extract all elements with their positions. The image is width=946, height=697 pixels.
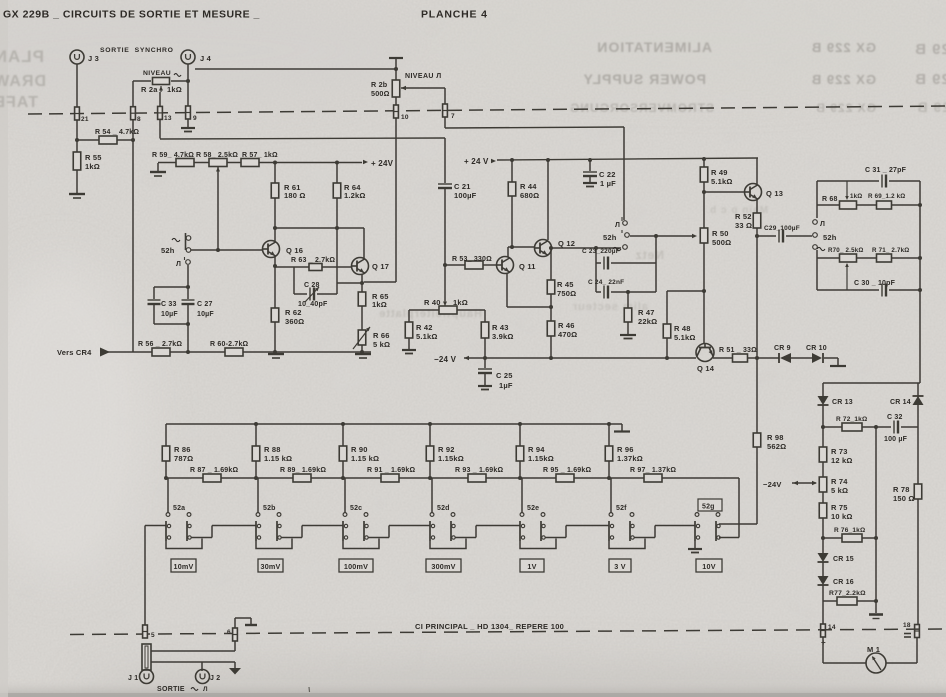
svg-text:R 63 _ 2.7kΩ: R 63 _ 2.7kΩ [291,257,335,264]
svg-text:R 68: R 68 [822,196,838,203]
wire R78 to pad 18 [917,499,919,624]
range label box 100mV [339,559,373,572]
junction series row col 2 [254,476,258,480]
svg-text:R 45: R 45 [557,280,574,289]
wire series row to switch contact col 3 [344,478,346,513]
wire R2b bottom to pad 10 [395,97,397,105]
wire coax shield row lower [151,661,235,663]
svg-text:52d: 52d [437,505,450,512]
potentiometer R40 [439,306,457,314]
svg-text:C 21: C 21 [454,182,471,191]
resistor R42 [408,310,410,322]
range label box 3 V [609,559,631,572]
wire R2a wiper to pad 13 [159,92,161,107]
svg-text:30mV: 30mV [261,562,281,571]
svg-text:C 23_220µF: C 23_220µF [582,248,620,255]
svg-text:1V: 1V [527,562,536,571]
ground below C22 [583,182,597,184]
wire pad6 down to upper row [234,641,236,651]
wire series row to switch contact col 4 [431,478,433,513]
svg-text:12 kΩ: 12 kΩ [831,456,853,465]
potentiometer R70 row with wiper to C30 row [817,257,920,259]
+24V label left rail [363,160,368,164]
wire CR10 to stub [824,357,838,359]
svg-text:470Ω: 470Ω [558,330,577,339]
svg-text:C 32: C 32 [887,414,903,421]
junction series row col 6 [607,476,611,480]
capacitor C30 row [817,289,920,291]
svg-text:3 V: 3 V [614,562,625,571]
svg-text:52g: 52g [702,504,715,511]
svg-text:PLANCHE 4: PLANCHE 4 [421,9,488,21]
svg-text:100µF: 100µF [454,191,477,200]
wire pad14 to meter M1 [822,637,824,663]
svg-text:R 90: R 90 [351,445,368,454]
svg-text:CR 15: CR 15 [833,556,854,563]
capacitor C31 row [817,180,920,182]
svg-text:R 62: R 62 [285,308,302,317]
svg-text:1kΩ: 1kΩ [372,300,387,309]
junction R64 on left rail [335,161,339,165]
resistor R61 [274,162,276,183]
wire series row to switch contact col 6 [610,478,612,513]
wire 52a to 52b [191,537,212,539]
wire R45 to R46 [550,294,552,321]
svg-text:SORTIE: SORTIE [157,686,185,693]
svg-text:−24V: −24V [763,480,782,489]
wire left side of measure block [816,181,818,218]
svg-text:22kΩ: 22kΩ [638,317,657,326]
svg-text:R 88: R 88 [264,445,281,454]
series resistor R 87 [203,474,221,482]
svg-text:CR 9: CR 9 [774,345,791,352]
svg-text:R 76_1kΩ: R 76_1kΩ [834,527,865,534]
svg-text:CR 10: CR 10 [806,345,827,352]
svg-text:R 96: R 96 [617,445,634,454]
wire C21 to R53 node [444,188,446,265]
resistor R75 [822,492,824,503]
stray mark [308,687,311,692]
svg-text:52f: 52f [616,505,627,512]
wire R2a right to J4 column [171,80,188,82]
wire meter to pad 18 [886,662,917,664]
junction series row col 5 [518,476,522,480]
resistor R52 [753,213,761,228]
junction R61 on left rail [273,161,277,165]
svg-text:R 91 _ 1.69kΩ: R 91 _ 1.69kΩ [367,467,415,474]
svg-text:C 30 _ 10pF: C 30 _ 10pF [854,280,896,287]
svg-text:J 2: J 2 [210,675,220,682]
wire coax to pad6 column upper [151,650,235,652]
svg-text:R 78: R 78 [893,485,910,494]
selector switch 52h left [185,233,187,250]
resistor R60 [225,348,243,356]
wire R43 to -24V rail [484,338,486,358]
wire node down to R40 wiper [444,265,446,301]
range label box 1V [520,559,544,572]
svg-text:500Ω: 500Ω [712,238,731,247]
diode CR10 [812,353,823,363]
svg-text:10mV: 10mV [174,562,194,571]
junction series row col 1 [164,476,168,480]
svg-text:R 50: R 50 [712,229,729,238]
wire pad10 column down to Q17 emitter node [395,118,397,282]
svg-text:33 Ω: 33 Ω [735,221,752,230]
diode CR15 [822,538,824,553]
svg-text:R 59_ 4.7kΩ: R 59_ 4.7kΩ [152,152,194,159]
svg-text:R 51 _ 33Ω: R 51 _ 33Ω [719,347,757,354]
svg-text:5.1kΩ: 5.1kΩ [674,333,696,342]
svg-text:Л: Л [176,261,181,268]
svg-text:Q 12: Q 12 [558,239,575,248]
series resistor R 95 [556,474,574,482]
svg-text:GX 229 B: GX 229 B [815,101,876,115]
pad 18 [914,625,919,638]
resistor R64 [336,162,338,183]
wire R51 to CR9 [747,357,779,359]
potentiometer R66 [358,330,366,345]
capacitor C22 [589,160,591,172]
junction C32 column [874,425,878,429]
junction series row col 4 [428,476,432,480]
capacitor C32 [891,420,901,435]
wire R64 to collector link [336,198,338,228]
series resistor R 93 [468,474,486,482]
ground symbol below R66 [355,354,371,358]
junction top rail col 5 [518,422,522,426]
pad 13 [157,106,162,119]
svg-text:R 40: R 40 [424,298,441,307]
svg-text:150 Ω: 150 Ω [893,494,915,503]
wire pad13 down and line B to C21 column [159,119,161,139]
pad 6 [232,628,237,641]
svg-text:1.37kΩ: 1.37kΩ [617,454,643,463]
svg-text:C 22: C 22 [599,170,616,179]
svg-text:R 95 _ 1.69kΩ: R 95 _ 1.69kΩ [543,467,591,474]
selector switch 52h middle [623,221,628,226]
resistor R44 [511,160,513,182]
wire 52h output to R50 wiper [630,235,692,237]
wire R44 to Q12 base node [511,196,513,247]
wire pad7 down then NIVEAU pulse line to 52h [444,117,446,128]
svg-text:Q 13: Q 13 [766,189,783,198]
shield ground triangle [234,662,236,668]
wire R48 top row [667,290,704,292]
junction top rail col 6 [607,422,611,426]
resistor R71 [877,254,892,262]
resistor R54 row [77,139,133,141]
wire ladder input column to 52a [144,526,146,627]
svg-text:R 55: R 55 [85,153,102,162]
transistor Q14 [696,344,714,362]
wire 52g upper output to R98 column [719,523,757,525]
svg-text:500Ω: 500Ω [371,89,390,98]
svg-text:R 46: R 46 [558,321,575,330]
wire R52 to C29 node [756,228,758,236]
resistor R 92 [429,424,431,446]
svg-text:7: 7 [451,113,455,120]
wire 52b to 52c [281,537,302,539]
pad 9 [185,106,190,119]
svg-text:NIVEAU: NIVEAU [143,70,171,77]
svg-text:52b: 52b [263,505,276,512]
wire R55 to ground [76,170,78,193]
svg-text:C 24_ 22nF: C 24_ 22nF [588,279,624,286]
range label box 300mV [426,559,461,572]
attenuator series row [166,477,739,479]
resistor R 94 [519,424,521,446]
svg-text:52h: 52h [823,233,837,242]
range label box 10V [696,559,722,572]
resistor R 88 [255,424,257,446]
range label box 10mV [171,559,196,572]
svg-text:J 4: J 4 [200,54,212,63]
svg-text:R 92: R 92 [438,445,455,454]
diode CR9 [779,353,791,363]
wire Q12 emitter to 52h sine contact [551,247,621,249]
coax feedthrough below pad 5 [142,644,151,670]
resistor R69 [877,201,892,209]
wire J4 to R2b column [195,68,396,70]
svg-text:GX 229B _ CIRCUITS DE SORTIE: GX 229B _ CIRCUITS DE SORTIE ET MESURE _ [3,9,260,21]
potentiometer R74 [822,462,824,477]
svg-text:R 52: R 52 [735,212,752,221]
svg-text:5 kΩ: 5 kΩ [373,340,390,349]
resistor R77 row [822,585,824,601]
svg-text:ALIMENTATION: ALIMENTATION [596,39,712,55]
pad 8 [130,107,135,120]
potentiometer R2a NIVEAU sine [153,78,170,85]
collector link line Q16-Q17 [275,227,364,229]
svg-text:1kΩ: 1kΩ [850,193,862,200]
svg-text:10_40pF: 10_40pF [298,301,328,308]
ground symbol below R62 [268,354,284,358]
ground below C25 [478,385,492,387]
wire 52e to 52f [545,537,566,539]
wire R62 to ground row [274,322,276,352]
svg-text:R77_2.2kΩ: R77_2.2kΩ [829,590,866,597]
wire R42 to ground [408,338,410,349]
ground under R55 [69,194,85,198]
wire series row to switch contact col 1 [167,478,169,513]
svg-text:R 75: R 75 [831,503,848,512]
svg-text:100mV: 100mV [344,562,368,571]
svg-text:R 47: R 47 [638,308,655,317]
svg-text:R 49: R 49 [711,168,728,177]
svg-text:GX 229 B: GX 229 B [914,71,946,88]
series resistor R 89 [293,474,311,482]
svg-text:1.15 kΩ: 1.15 kΩ [264,454,292,463]
wire J3 to pad 21 [76,64,78,107]
meter M1 [866,653,886,673]
svg-text:180 Ω: 180 Ω [284,191,306,200]
svg-text:360Ω: 360Ω [285,317,304,326]
wire R66 to ground row [361,345,363,352]
wire R48 to -24V rail [666,338,668,358]
svg-text:13: 13 [164,115,172,122]
svg-text:21: 21 [81,116,89,123]
svg-text:R 66: R 66 [373,331,390,340]
series resistor R 97 [644,474,662,482]
diode CR14 [913,396,924,405]
dashed board edge line top [28,106,946,114]
svg-text:5.1kΩ: 5.1kΩ [711,177,733,186]
wire C28 loop to Q17 emitter [337,282,362,284]
svg-text:Q 17: Q 17 [372,262,389,271]
svg-text:R 87 _ 1.69kΩ: R 87 _ 1.69kΩ [190,467,238,474]
capacitor C25 [484,358,486,369]
svg-text:GX 229 B: GX 229 B [811,72,876,87]
svg-text:100 µF: 100 µF [884,436,908,443]
wire R47 to ground [627,322,629,334]
right vertical of measure block [919,181,921,383]
pad 7 [442,104,447,117]
R58 wiper stem to Q16 base wire [216,167,220,172]
resistor R72 row [823,426,918,428]
wire pad9 to ground [187,119,189,127]
variable capacitor C28 loop [293,267,295,294]
svg-text:R 2b: R 2b [371,80,388,89]
resistor R63 feedback row [275,266,351,268]
svg-text:R 93 _ 1.69kΩ: R 93 _ 1.69kΩ [455,467,503,474]
ground below R47 [620,334,636,336]
svg-text:R 74: R 74 [831,477,848,486]
wire R76-R77 right vertical to ground [875,538,877,601]
wire 52d to 52e [455,537,476,539]
svg-text:R 42: R 42 [416,323,433,332]
resistor R76 row [823,537,876,539]
svg-text:Л: Л [820,221,825,228]
svg-text:+ 24 V: + 24 V [464,157,489,166]
wire NIVEAU pulse down to 52h selector [623,127,625,220]
svg-text:R 56 _ 2.7kΩ: R 56 _ 2.7kΩ [138,341,182,348]
selector switch 52h right contacts [813,220,818,225]
resistor R65 [361,283,363,292]
resistor R 96 [608,424,610,446]
svg-text:CR 16: CR 16 [833,579,854,586]
svg-text:CI PRINCIPAL _ HD 1304_ REPER: CI PRINCIPAL _ HD 1304_ REPERE 100 [415,622,564,631]
svg-text:NIVEAU Л: NIVEAU Л [405,73,442,80]
pad 10 [393,105,398,118]
wire R46 to -24V rail [550,336,552,358]
svg-text:CR 14: CR 14 [890,399,911,406]
svg-text:R 98: R 98 [767,433,784,442]
svg-text:18: 18 [903,622,911,629]
resistor R68 row [817,204,920,206]
wire 52g lower output to series row corner [719,537,739,539]
diode CR16 [822,562,824,576]
svg-text:R 97_ 1.37kΩ: R 97_ 1.37kΩ [630,467,676,474]
series row corner down to 52g [738,478,740,538]
svg-text:1µF: 1µF [499,381,513,390]
svg-text:6: 6 [227,629,231,636]
svg-text:562Ω: 562Ω [767,442,786,451]
svg-text:1kΩ: 1kΩ [453,298,468,307]
range label box 30mV [258,559,283,572]
svg-text:C 27: C 27 [197,301,213,308]
svg-text:J 1: J 1 [128,675,138,682]
R40 row wires [409,309,439,311]
junction top rail col 2 [254,422,258,426]
resistor R46 [547,321,555,336]
wire pad21 down to R54 node and R55 [76,120,78,152]
resistor R55 [73,152,81,170]
wire series row to switch contact col 5 [521,478,523,513]
connector J4 [181,50,195,64]
svg-text:52a: 52a [173,505,185,512]
series resistor R 91 [381,474,399,482]
svg-text:10µF: 10µF [197,311,214,318]
svg-text:−24 V: −24 V [434,355,457,364]
resistor R47 [627,292,629,308]
svg-text:R 43: R 43 [492,323,509,332]
svg-text:R 86: R 86 [174,445,191,454]
meter block top rail [823,382,920,384]
junction top rail col 3 [341,422,345,426]
svg-text:1.15kΩ: 1.15kΩ [528,454,554,463]
svg-text:C 33: C 33 [161,301,177,308]
wire Q11 emitter to R45 node [506,273,508,307]
resistor R59 [176,159,194,167]
resistor R62 [274,266,276,308]
svg-text:Л: Л [203,686,208,693]
resistor R73 [822,427,824,447]
svg-text:R 94: R 94 [528,445,545,454]
svg-text:1 µF: 1 µF [600,179,616,188]
svg-text:R 58_ 2.5kΩ: R 58_ 2.5kΩ [196,152,238,159]
svg-text:10V: 10V [702,562,715,571]
svg-text:SORTIE SYNCHRO: SORTIE SYNCHRO [100,47,174,54]
wire Q16 emitter node [274,257,276,266]
-24V rail [464,357,696,359]
svg-text:787Ω: 787Ω [174,454,193,463]
junction top rail col 4 [428,422,432,426]
wire pad8 column down to ground row [132,81,134,107]
svg-text:52h: 52h [161,246,175,255]
wire series row to switch contact col 2 [257,478,259,513]
junction series row col 3 [341,476,345,480]
svg-text:R 73: R 73 [831,447,848,456]
svg-text:POWER SUPPLY: POWER SUPPLY [582,71,706,87]
wire Q11 collector to Q12 base [507,247,509,257]
svg-text:Q 16: Q 16 [286,246,303,255]
svg-text:R 71_ 2.7kΩ: R 71_ 2.7kΩ [872,247,909,254]
wire Q14 output to R51 [713,357,733,359]
svg-text:GX 229 B: GX 229 B [914,41,946,58]
svg-text:1.15kΩ: 1.15kΩ [438,454,464,463]
svg-text:Netz: Netz [635,248,664,262]
wire C23 block to 52h output wire [655,236,657,263]
termination bar after CR10 [830,365,846,367]
svg-text:C 25: C 25 [496,371,513,380]
wire Q12 collector to +24V rail [547,160,549,240]
wire CR9 to CR10 [791,357,812,359]
pad 5 [142,625,147,638]
potentiometer R50 [703,192,705,228]
wire R2a left to pad8 column [133,80,151,82]
resistor R45 [550,248,552,280]
svg-text:Vers CR4: Vers CR4 [57,348,92,357]
ground under pad 9 [181,127,195,129]
capacitor C23 [595,248,597,263]
wire Q16 base from 52h selector [190,249,262,251]
junction C-block on ground row [186,350,190,354]
ground below R42 [402,349,416,351]
transistor Q13 [756,158,758,184]
resistor R43 [484,310,486,322]
wire R49 to Q13 base [703,182,705,192]
svg-text:3.9kΩ: 3.9kΩ [492,332,514,341]
